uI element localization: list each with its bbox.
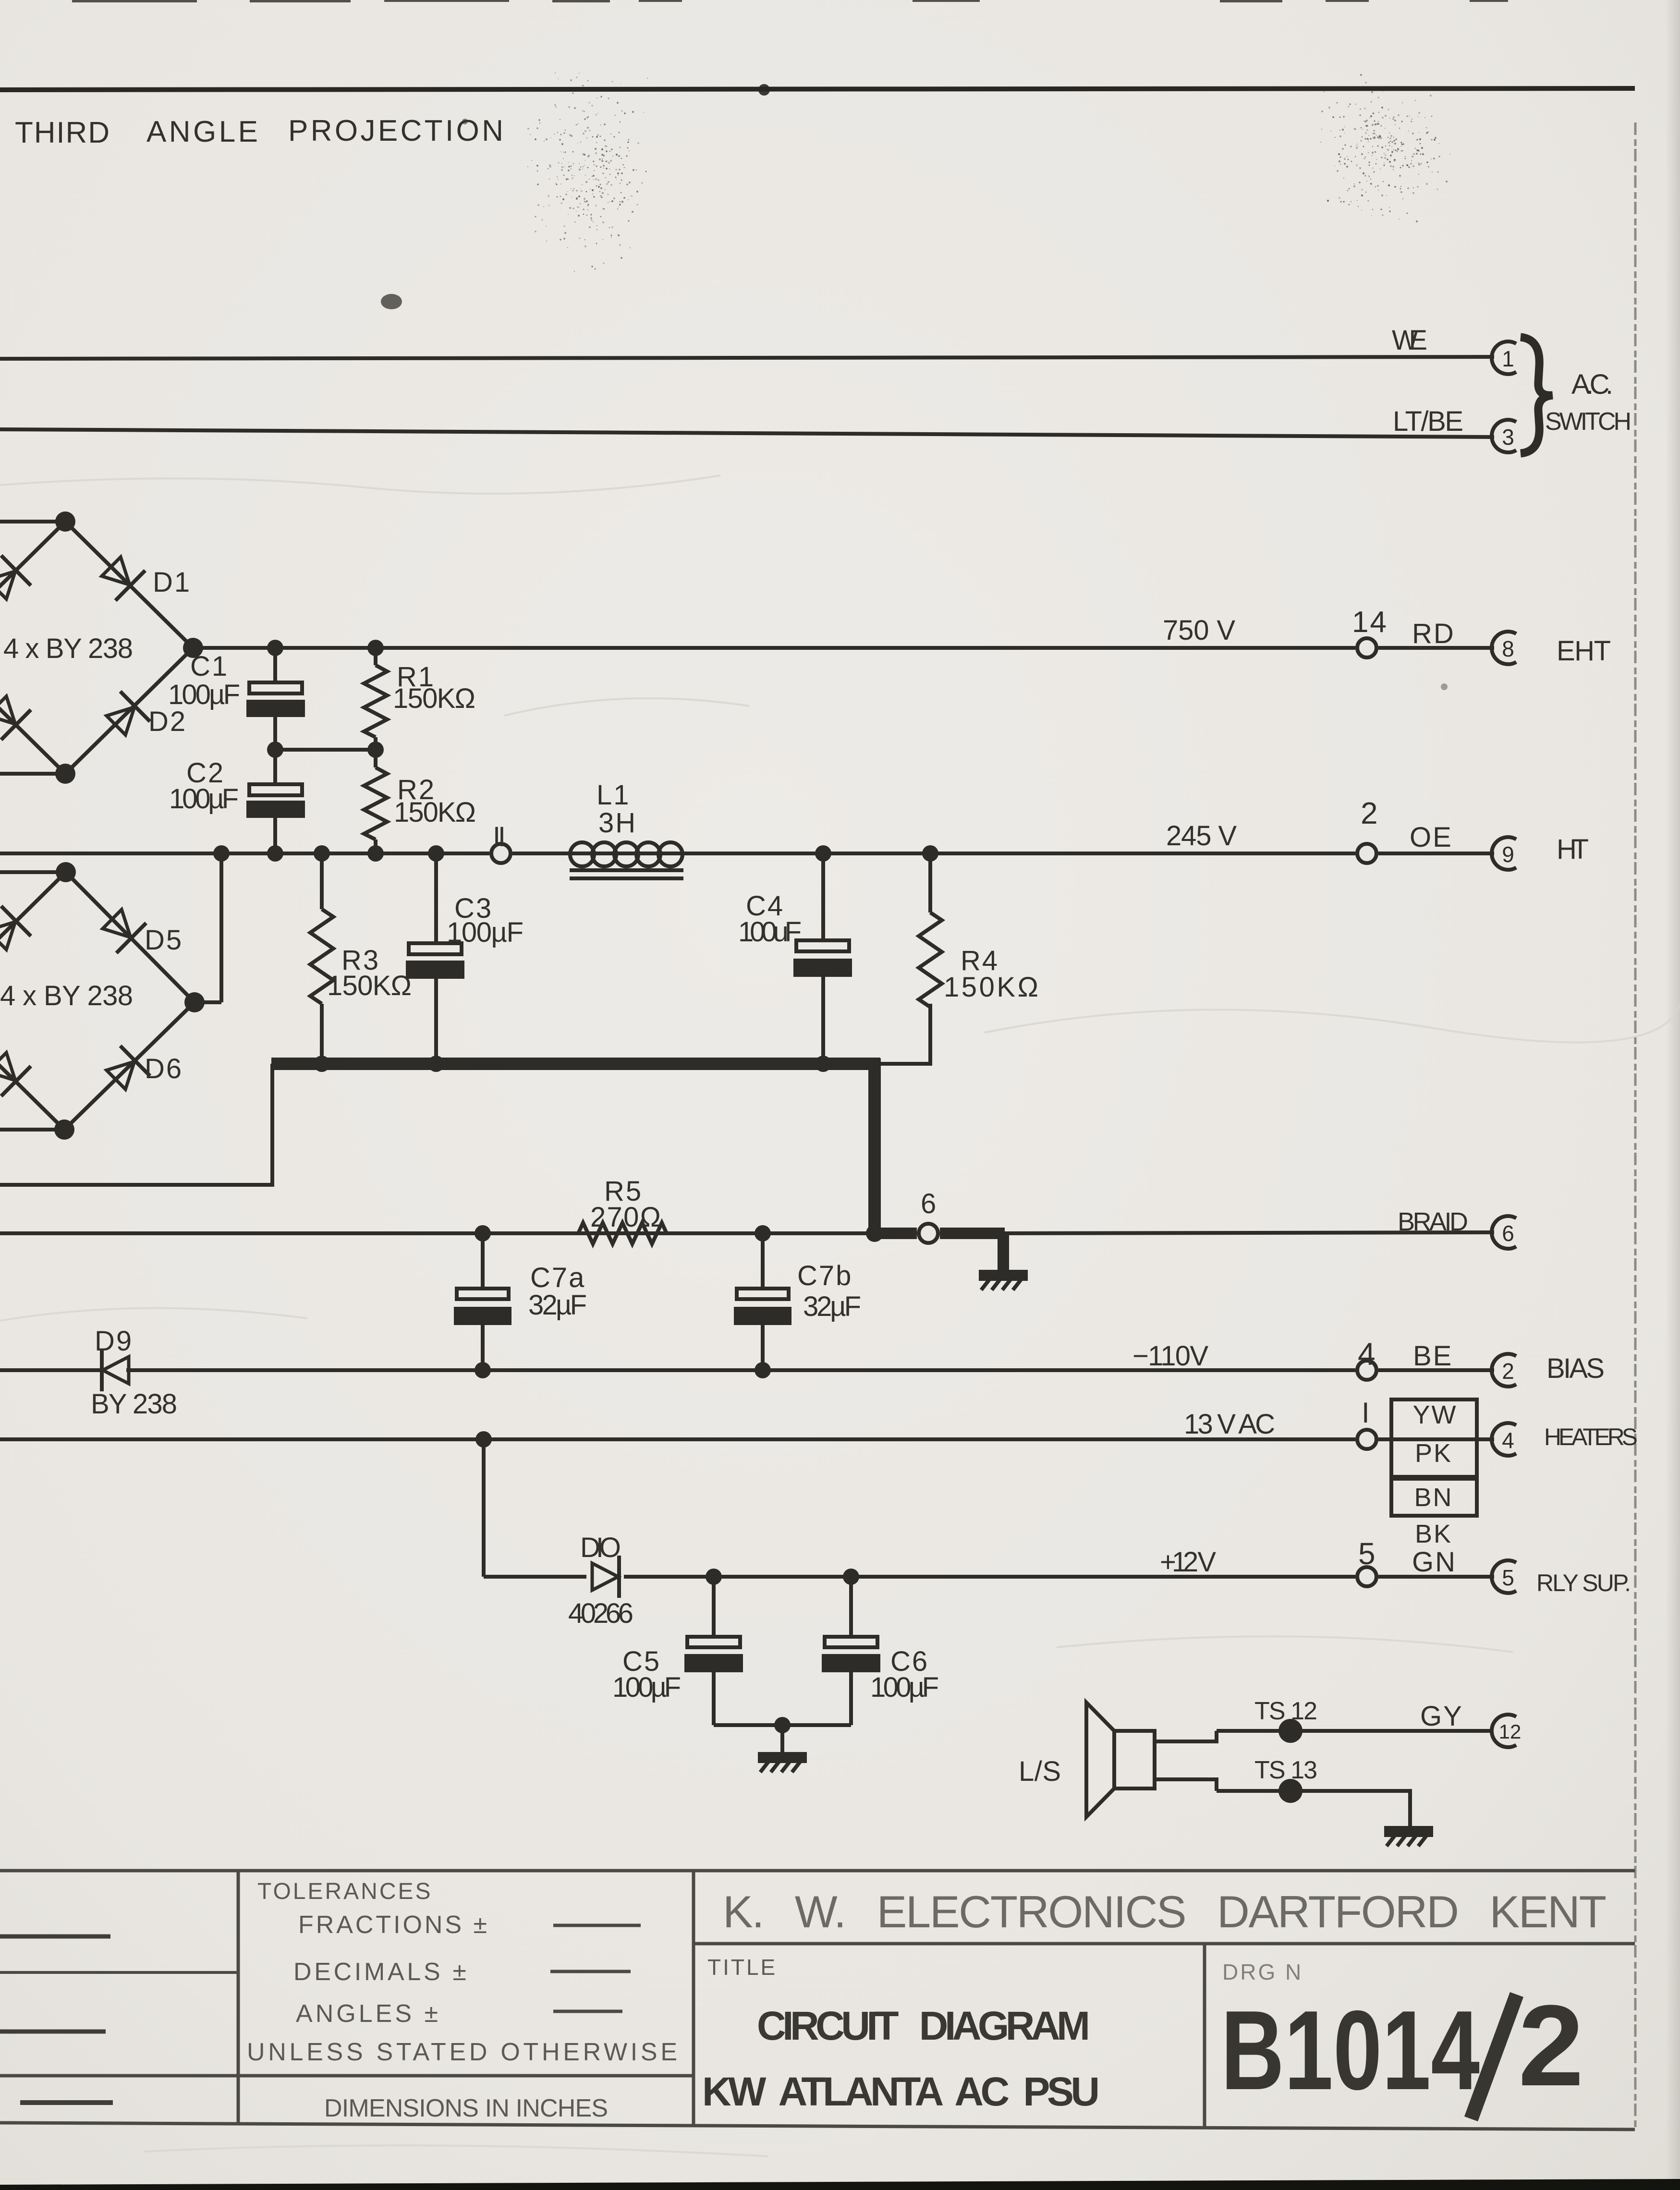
svg-text:13 V AC: 13 V AC [1184, 1409, 1277, 1440]
svg-text:2: 2 [1361, 796, 1379, 830]
svg-text:4: 4 [1502, 1428, 1514, 1453]
svg-text:THIRD: THIRD [15, 116, 111, 149]
svg-text:4 x BY 238: 4 x BY 238 [3, 633, 134, 664]
svg-text:9: 9 [1502, 842, 1514, 867]
svg-text:PROJECTION: PROJECTION [288, 114, 505, 147]
svg-text:−110V: −110V [1132, 1340, 1210, 1372]
svg-text:LT/BE: LT/BE [1393, 406, 1465, 437]
svg-text:II: II [493, 821, 507, 852]
svg-text:6: 6 [921, 1188, 937, 1219]
svg-text:100µF: 100µF [870, 1672, 940, 1703]
svg-text:BY 238: BY 238 [91, 1388, 179, 1420]
svg-text:BE: BE [1413, 1340, 1453, 1372]
svg-text:D6: D6 [145, 1053, 183, 1084]
svg-text:TS 12: TS 12 [1254, 1697, 1319, 1725]
svg-text:270Ω: 270Ω [590, 1202, 662, 1233]
svg-text:32µF: 32µF [803, 1291, 863, 1322]
svg-text:D2: D2 [148, 706, 187, 737]
svg-text:150KΩ: 150KΩ [393, 683, 477, 714]
svg-text:1: 1 [1502, 346, 1514, 371]
svg-text:150KΩ: 150KΩ [944, 972, 1040, 1003]
svg-text:A.C.: A.C. [1571, 369, 1615, 400]
svg-text:C7b: C7b [797, 1260, 852, 1291]
svg-text:I: I [1362, 1397, 1371, 1429]
svg-text:L1: L1 [597, 779, 631, 811]
svg-text:D9: D9 [95, 1326, 133, 1357]
svg-text:4 x BY 238: 4 x BY 238 [0, 980, 134, 1011]
svg-text:K. W. ELECTRONICS DARTFORD KEN: K. W. ELECTRONICS DARTFORD KENT [723, 1886, 1607, 1937]
svg-text:TOLERANCES: TOLERANCES [257, 1879, 433, 1904]
svg-text:4: 4 [1358, 1336, 1377, 1372]
svg-text:BK: BK [1415, 1520, 1452, 1548]
svg-text:D5: D5 [145, 925, 183, 956]
svg-text:DIMENSIONS IN INCHES: DIMENSIONS IN INCHES [324, 2094, 610, 2122]
svg-text:WE: WE [1392, 325, 1429, 356]
svg-text:BRAID: BRAID [1398, 1207, 1470, 1236]
svg-text:RLY SUP.: RLY SUP. [1536, 1569, 1632, 1596]
svg-text:TITLE: TITLE [707, 1955, 777, 1980]
svg-text:5: 5 [1358, 1536, 1377, 1571]
svg-text:CIRCUIT DIAGRAM: CIRCUIT DIAGRAM [757, 2003, 1090, 2048]
svg-text:C7a: C7a [530, 1262, 585, 1293]
svg-text:100µF: 100µF [447, 917, 525, 948]
svg-text:OE: OE [1410, 822, 1453, 853]
svg-text:UNLESS STATED OTHERWISE: UNLESS STATED OTHERWISE [247, 2038, 679, 2066]
svg-text:40266: 40266 [568, 1598, 635, 1629]
svg-text:2: 2 [1518, 1981, 1584, 2110]
svg-text:C1: C1 [190, 651, 229, 682]
svg-text:PK: PK [1415, 1439, 1452, 1468]
svg-text:150KΩ: 150KΩ [327, 970, 413, 1001]
svg-text:ANGLES ±: ANGLES ± [296, 2000, 440, 2028]
svg-text:14: 14 [1352, 606, 1388, 639]
svg-text:2: 2 [1502, 1359, 1514, 1384]
svg-text:GY: GY [1420, 1701, 1463, 1732]
svg-text:5: 5 [1502, 1565, 1514, 1590]
svg-text:+12 V: +12 V [1160, 1546, 1217, 1578]
svg-text:YW: YW [1413, 1400, 1458, 1429]
svg-text:245 V: 245 V [1166, 820, 1238, 852]
svg-text:100µF: 100µF [612, 1672, 682, 1703]
svg-text:32µF: 32µF [528, 1290, 588, 1321]
svg-text:FRACTIONS ±: FRACTIONS ± [298, 1911, 489, 1939]
svg-text:RD: RD [1412, 618, 1455, 649]
svg-text:ANGLE: ANGLE [146, 115, 259, 148]
svg-text:3: 3 [1502, 425, 1514, 450]
svg-text:HEATERS: HEATERS [1544, 1423, 1639, 1450]
svg-text:100µF: 100µF [169, 783, 240, 815]
svg-text:TS 13: TS 13 [1254, 1756, 1319, 1784]
svg-text:BN: BN [1414, 1483, 1453, 1512]
svg-text:SWITCH: SWITCH [1545, 408, 1633, 436]
svg-text:150KΩ: 150KΩ [394, 797, 477, 828]
svg-text:HT: HT [1557, 834, 1595, 865]
svg-text:DIO: DIO [580, 1532, 622, 1563]
svg-text:6: 6 [1502, 1221, 1514, 1246]
svg-text:EHT: EHT [1557, 635, 1617, 667]
svg-text:8: 8 [1502, 636, 1514, 661]
svg-text:12: 12 [1499, 1720, 1522, 1743]
svg-text:DRG N: DRG N [1222, 1959, 1303, 1984]
svg-text:KW ATLANTA AC PSU: KW ATLANTA AC PSU [702, 2069, 1100, 2114]
svg-text:3H: 3H [598, 807, 637, 839]
svg-text:GN: GN [1412, 1546, 1457, 1578]
svg-text:100uF: 100uF [738, 916, 803, 948]
svg-text:750 V: 750 V [1163, 615, 1237, 646]
svg-text:L/S: L/S [1019, 1756, 1062, 1787]
svg-text:DECIMALS ±: DECIMALS ± [293, 1958, 468, 1986]
svg-text:D1: D1 [153, 567, 191, 598]
svg-text:BIAS: BIAS [1546, 1353, 1609, 1384]
svg-text:B1014: B1014 [1221, 1987, 1480, 2113]
